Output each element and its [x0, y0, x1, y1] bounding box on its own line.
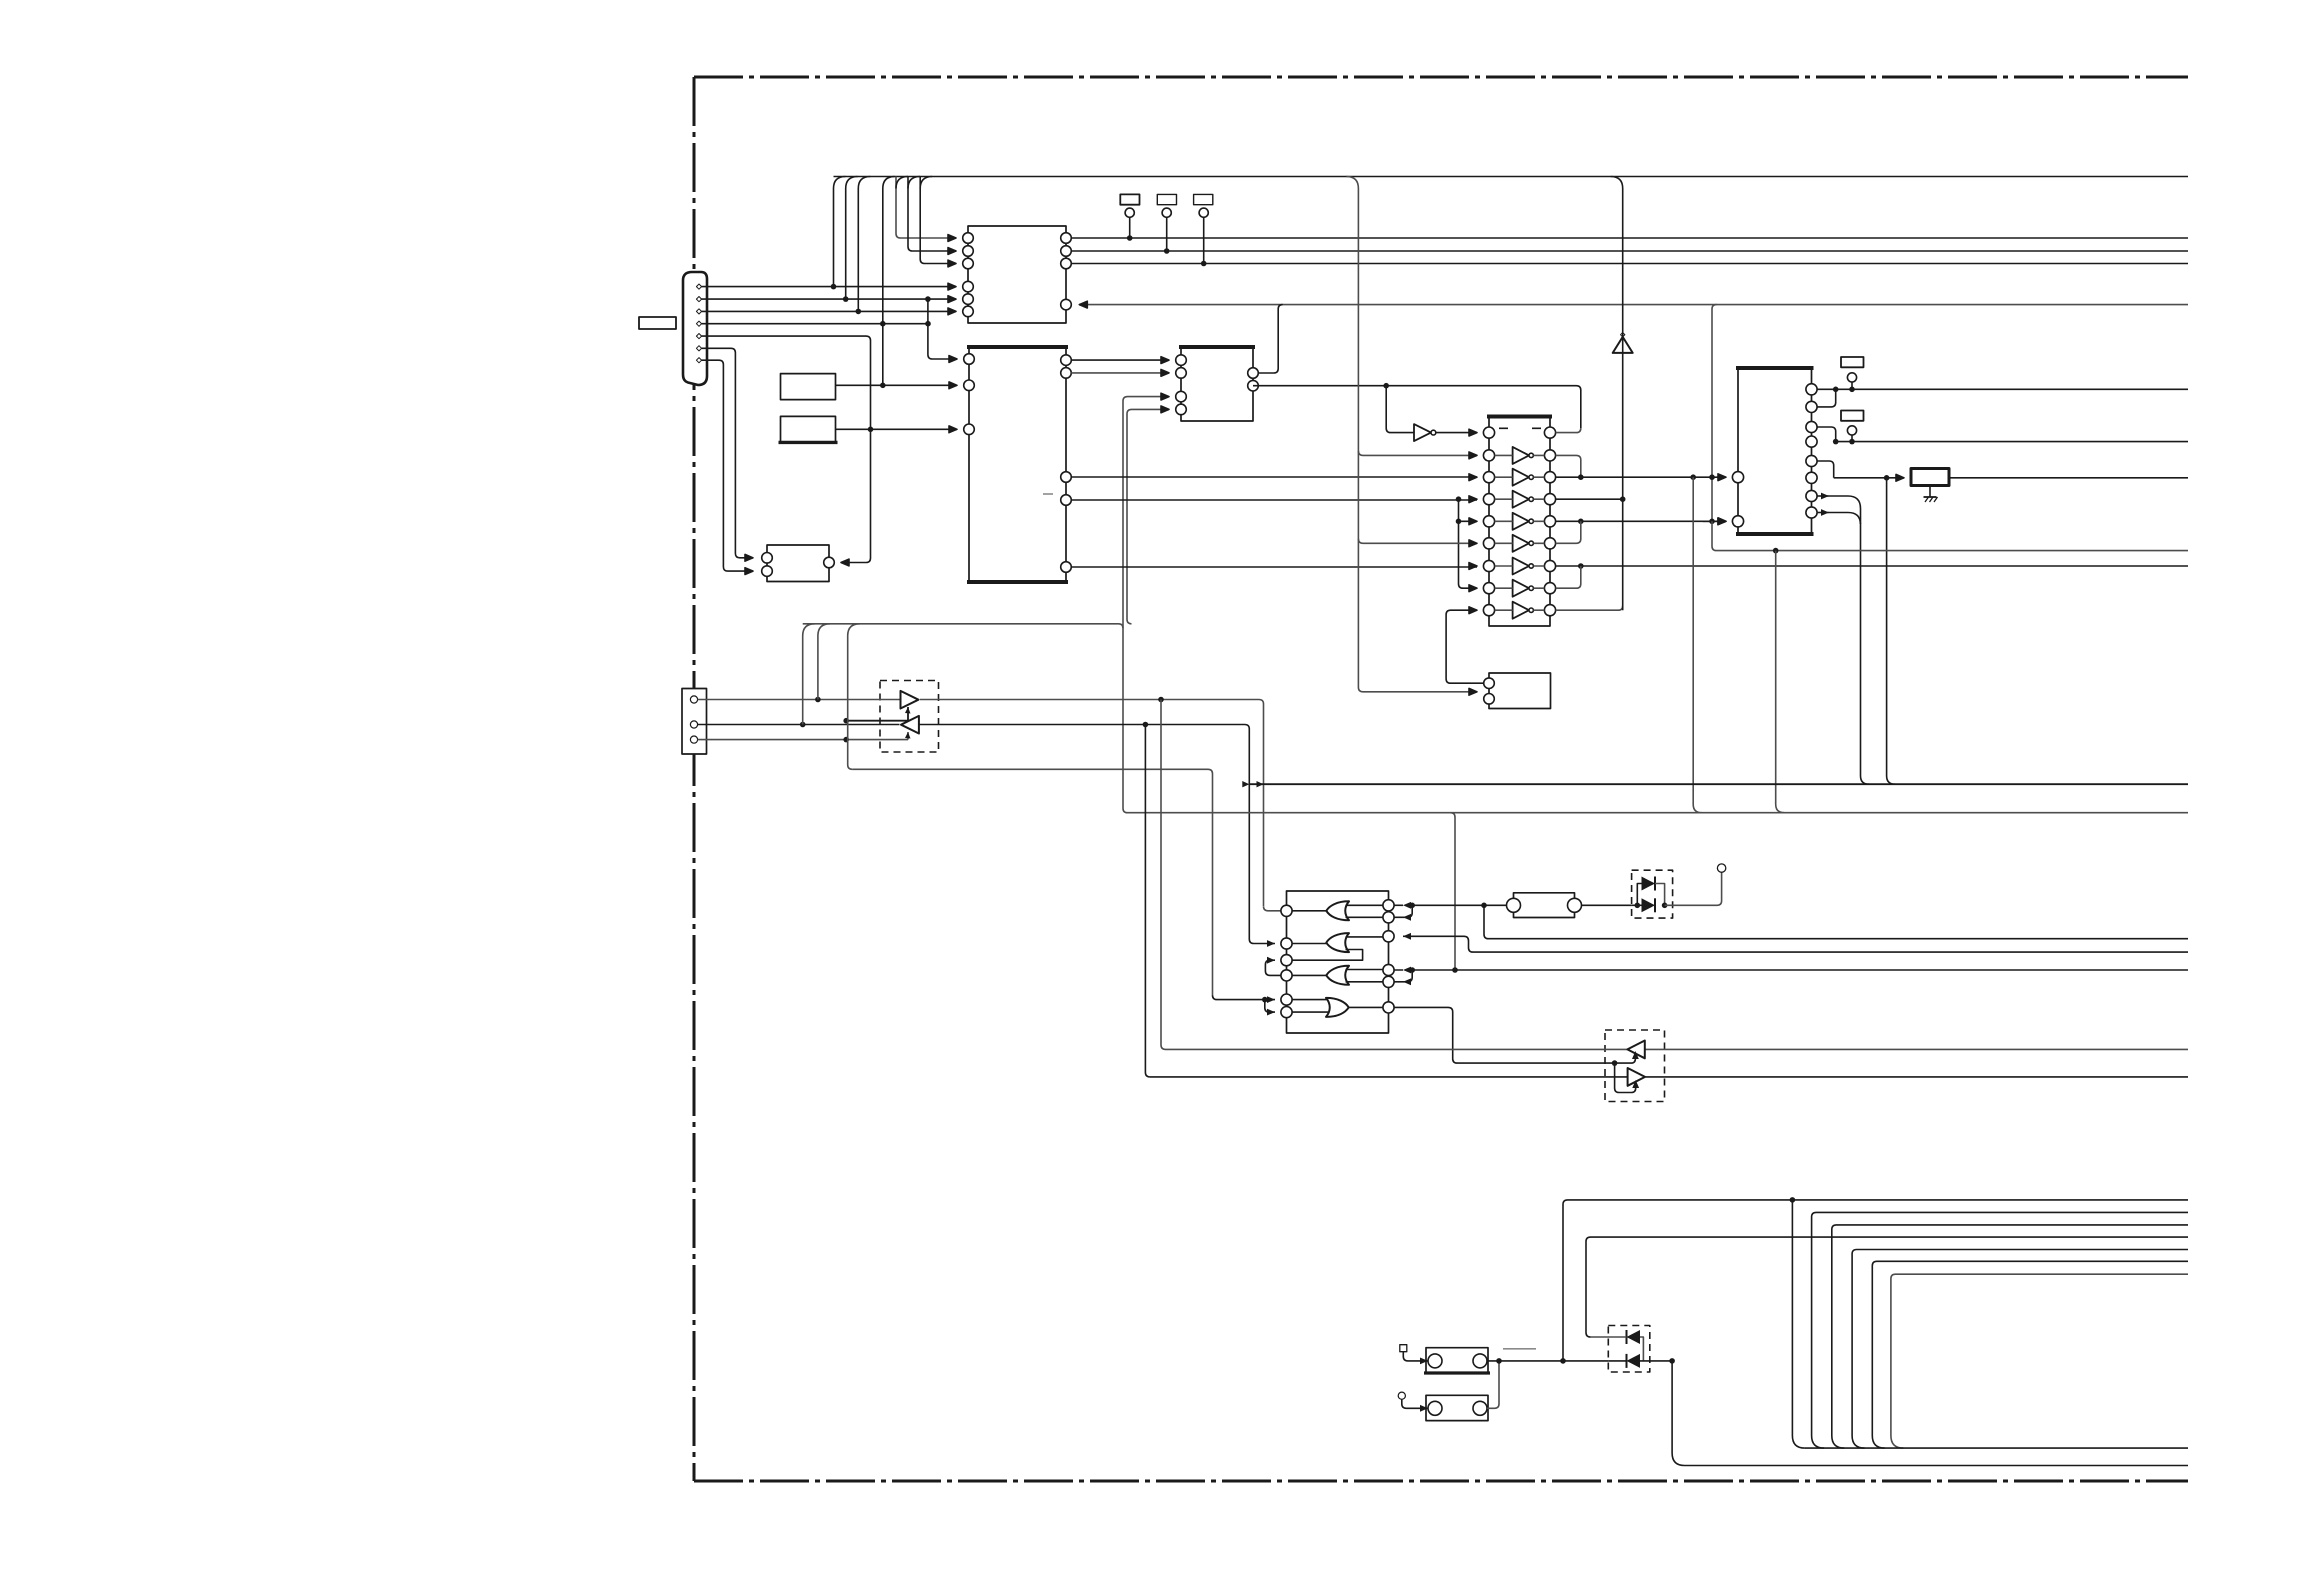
- wire U6 out4 to right edge: [1833, 439, 2188, 445]
- connector J1 pin 1: [696, 284, 701, 289]
- wire U3 out2 to riser V1580: [1253, 383, 1581, 428]
- wire U2 out2 to U3 in2: [1071, 370, 1169, 377]
- connector J2 body: [682, 689, 707, 755]
- wire bus M1 middle horizontal: [803, 624, 1123, 629]
- wire FB1 tap down to U6 region: [1712, 305, 1717, 522]
- wire bus drop to U1 pin A3: [920, 177, 956, 267]
- wire U2 out3 to U4 row3 input: [1071, 474, 1477, 481]
- IC U4 right pins: [1544, 427, 1555, 616]
- wire net H Y1077 through buffer UB-B: [1150, 1076, 2188, 1078]
- IC U2 right pins: [1061, 355, 1072, 572]
- U4 inverter row4: [1495, 491, 1545, 508]
- wire riser V1458 row4 net to row5 and row8: [1456, 499, 1477, 591]
- wire V1386 down to buffer U9 input: [1386, 386, 1414, 433]
- IC U6 right pins: [1806, 384, 1817, 518]
- wire V1263 net A drop to gate in1: [1264, 906, 1282, 911]
- IC U4 inverter array body: [1487, 417, 1552, 627]
- wire U13 output rise to U12 output net: [1487, 1358, 1502, 1408]
- U4 row1 no-connect dashes: [1499, 427, 1541, 429]
- wire riser V1358 bus to row2 row6 and U5 pin2: [1346, 177, 1477, 696]
- wire Y952 via V1468 to U7 in pin3: [1403, 933, 2188, 952]
- wire U6 out7 curve down join V1860: [1817, 493, 1860, 509]
- wire U8B feedback to net C: [905, 732, 911, 740]
- connector J1 (D-sub) body: [683, 272, 707, 385]
- wire U8A feedback to V847: [843, 707, 910, 724]
- wire U6 out6 to resistor R3: [1834, 474, 1904, 481]
- wire net C gray J2 pin3: [698, 737, 908, 743]
- dashed diode box DB2: [1608, 1326, 1650, 1373]
- wire U6 in2 arrow: [1703, 518, 1726, 525]
- net marker triangle on V1622: [1613, 333, 1633, 353]
- IC U6 body: [1736, 368, 1814, 534]
- wire U6 out8 curve down join V1860: [1817, 509, 1860, 524]
- terminal T5: [1398, 1392, 1428, 1412]
- diode D3: [1635, 877, 1668, 909]
- U4 inverter row6: [1495, 535, 1545, 552]
- IC U6 left pins: [1732, 472, 1743, 527]
- U4 inverter row7: [1495, 558, 1545, 575]
- buffer U9: [1414, 424, 1436, 441]
- wire U4 row2 output drop to row3 output: [1556, 455, 1584, 480]
- connector J1 pin 6: [696, 346, 701, 351]
- wire net RC1 U7 out to RC block U11: [1412, 903, 1506, 909]
- wire U4 row6 output rise to row5: [1556, 521, 1581, 543]
- board outline dash-dot border bottom: [694, 1480, 2188, 1483]
- board outline dash-dot border top: [694, 76, 2188, 79]
- wire riser V847 bus M1 to net D: [848, 624, 860, 770]
- IC U2 left pins: [964, 354, 975, 435]
- RC block U11: [1507, 893, 1582, 918]
- wire U4 row4 output to V1622 junction: [1556, 496, 1626, 502]
- wire U6 out2 jog up: [1817, 389, 1836, 407]
- wire riser V802 bus M1 to net B: [803, 624, 815, 725]
- wire J1 pin3 to U1: [702, 308, 956, 315]
- wire bus net B0 top horizontal: [834, 176, 2189, 178]
- wire U7 gate4 output to buffer box BX2: [1394, 1007, 1639, 1092]
- connector J1 pin 7: [696, 358, 701, 363]
- gate G4 OR right-facing: [1292, 998, 1383, 1017]
- wire net B J2 pin2 through buffer U8B: [698, 722, 1250, 939]
- resistor network R1: [781, 374, 836, 400]
- wire riser V1446 U5 pin1 to row9 input: [1446, 607, 1484, 683]
- wire riser pin1 line to bus: [834, 177, 846, 287]
- label dash near U2 pin: [1043, 493, 1053, 495]
- wire U9 out to U4 row1: [1436, 429, 1477, 436]
- board outline dash-dot border left: [693, 77, 696, 1481]
- diode D2: [1608, 1354, 1672, 1368]
- wire riser V1586 bundle line L4 down to D1: [1586, 1237, 2188, 1337]
- bundle line L1: [1568, 1197, 2189, 1203]
- wire DB1 to terminal T3: [1665, 873, 1722, 906]
- wire riser V1123 from U3 in3 down to gray net: [1123, 393, 1169, 813]
- bundle vertical V1: [1792, 1200, 1805, 1448]
- wire V1145 net B tap down to buffer box BX2: [1145, 725, 1150, 1077]
- wire V1161 net A tap down to buffer box BX2: [1161, 700, 1166, 1050]
- bracket U7 right pins1-2: [1394, 902, 1415, 921]
- IC U10 right pin: [824, 557, 835, 568]
- wire U6 out5 jog down: [1817, 461, 1834, 478]
- wire net E dark Y784: [1242, 781, 2188, 787]
- wire V1887 resistor net down to Y784: [1887, 478, 1896, 784]
- wire R1 to U2 pin2: [836, 382, 958, 389]
- wire J1 pin7 down to U10 pin2: [702, 360, 753, 574]
- wire U4 row1 output riser to U3 net: [1556, 428, 1581, 433]
- wire J1 pin2 to U1: [702, 296, 956, 303]
- U4 inverter row3: [1495, 469, 1545, 486]
- buffer U8B: [901, 716, 919, 734]
- gate array U7 body: [1287, 891, 1389, 1033]
- wire riser pin3 line to bus: [858, 177, 870, 312]
- wire U4 row8 output rise to row7: [1556, 566, 1581, 588]
- IC U4 left pins: [1483, 427, 1494, 616]
- bracket U7 right pins4-5 and net Y970: [1394, 967, 2188, 986]
- wire U4 row7 output to right edge: [1556, 563, 2188, 569]
- relay coil U12: [1424, 1348, 1490, 1373]
- label box left of connector: [639, 317, 676, 329]
- wire gray jog pin2 net down to Y550 line: [1712, 521, 2188, 553]
- U4 inverter row8: [1495, 580, 1545, 597]
- terminal T3: [1717, 864, 1725, 872]
- IC U10 body: [767, 545, 829, 582]
- wire riser J1pin2 junction down to U2 pin1: [928, 299, 957, 362]
- wire U4 row5 output to U6 in2: [1556, 518, 1726, 525]
- IC U3 left pins: [1176, 355, 1187, 415]
- wire U2 out5 to U4 row7 input: [1071, 563, 1477, 570]
- dashed buffer box BX2: [1605, 1030, 1665, 1102]
- bundle line L6 and vertical V5: [1872, 1261, 2188, 1448]
- IC U5 body: [1489, 673, 1551, 709]
- wire V1775 Y550 net down to gray Y812: [1776, 551, 1785, 813]
- IC U1 body: [968, 226, 1066, 323]
- gate G2 OR left-facing: [1292, 933, 1383, 960]
- bracket U7 outputs pins3-4 tie: [1265, 957, 1281, 976]
- wire U1 out3 to right edge: [1071, 263, 2188, 265]
- IC U5 left pins: [1484, 678, 1495, 704]
- IC U1 right pins: [1061, 233, 1072, 310]
- wire U2 out4 to U4 row4 input: [1071, 496, 1477, 503]
- arrow into gate pin2riser: [1267, 940, 1275, 947]
- wire bus drop to U1 pin A2: [908, 177, 956, 255]
- wire net D into U7 pins5-6: [1213, 995, 1276, 1015]
- resistor network R2: [779, 416, 838, 442]
- connector J1 pin 3: [696, 309, 701, 314]
- wire U2 out1 to U3 in1: [1071, 357, 1169, 364]
- U4 inverter row5: [1495, 513, 1545, 530]
- wire V1249 net B drop to gate in2: [1249, 939, 1275, 944]
- wire riser V1622 bus to row4 output: [1611, 177, 1623, 611]
- wire net K U12 output to diode box DB2: [1487, 1358, 1608, 1364]
- wire net G Y1049 through buffer UB-A: [1166, 1048, 2189, 1050]
- wire V1860 down to net Y784: [1861, 509, 1870, 785]
- wire net K2 D2 drop to bottom line: [1669, 1358, 2188, 1465]
- connector J2 pin 2: [690, 721, 697, 728]
- U4 inverter row2: [1495, 447, 1545, 464]
- resistor R3: [1911, 469, 1949, 486]
- test pad TP3: [1194, 194, 1213, 266]
- gate G1 OR left-facing: [1292, 901, 1383, 920]
- test pad TP2: [1157, 194, 1176, 253]
- wire riser V817 bus M1 to net A: [818, 624, 830, 700]
- wire bus drop to U1 pin A1: [896, 177, 956, 242]
- wire U4 row3 output to U6 in1: [1556, 474, 1726, 481]
- gate array U7 right pins: [1383, 900, 1394, 1013]
- bundle line L7 and vertical V6: [1891, 1274, 2188, 1448]
- wire riser pin2 line to bus: [846, 177, 858, 300]
- terminal pad T2: [1841, 411, 1864, 445]
- connector J1 pin 5: [696, 334, 701, 339]
- bundle line L2 and vertical V2: [1812, 1212, 2188, 1448]
- bundle line L3 and vertical V3: [1832, 1225, 2188, 1448]
- wire riser V1563 net K up to bundle line L1: [1563, 1200, 1568, 1361]
- dashed diode box DB1: [1632, 870, 1673, 918]
- terminal square T4: [1400, 1345, 1428, 1365]
- dashed isolation box BX1: [880, 681, 939, 753]
- diode D1: [1591, 1330, 1644, 1361]
- wire J1 pin1 to U1: [702, 283, 956, 290]
- relay coil U13: [1426, 1395, 1488, 1420]
- connector J2 pin 3: [690, 736, 697, 743]
- connector J1 pin 4: [696, 321, 701, 326]
- test pad TP1: [1120, 194, 1139, 240]
- wire net A gray J2 pin1 through buffer U8A: [698, 697, 1264, 906]
- connector J2 pin 1: [690, 696, 697, 703]
- wire riser V1127 from U3 in4 down to bus M1: [1127, 406, 1169, 624]
- wire J1 pin5 down to U10: [702, 336, 874, 566]
- IC U10 left pins: [762, 553, 773, 577]
- IC U1 left pins: [963, 233, 974, 317]
- ground symbol under R3: [1924, 486, 1938, 503]
- wire U11 to diode box DB1: [1582, 904, 1632, 906]
- IC U3 body: [1179, 347, 1255, 421]
- wire U4 row9 output rise to V1622: [1556, 606, 1623, 611]
- wire V1693 row3 net down to gray Y812: [1693, 477, 1702, 813]
- wire U6 out3 jog down: [1817, 427, 1836, 442]
- wire net F gray Y812: [1128, 813, 2189, 970]
- IC U3 right pins: [1248, 368, 1259, 391]
- buffer UB-B right-facing: [1628, 1068, 1645, 1086]
- buffer UB-A left-facing: [1627, 1041, 1644, 1059]
- wire R3 to right edge: [1949, 477, 2188, 479]
- wire R2 to U2 pin3: [836, 426, 958, 433]
- gate array U7 left pins: [1281, 905, 1292, 1018]
- bundle line L5 and vertical V4: [1852, 1250, 2188, 1449]
- wire U1 out2 to right edge: [1071, 250, 2188, 252]
- connector J1 pin 2: [696, 297, 701, 302]
- wire U6 out1 to right edge: [1817, 387, 2188, 393]
- buffer U8A: [901, 691, 919, 709]
- wire U3 out1 riser to FB1: [1253, 305, 1283, 373]
- wire net D gray to V1212: [852, 769, 1212, 995]
- junction FB1 tap on row5 line: [1709, 519, 1715, 525]
- label dash above net K: [1503, 1348, 1536, 1350]
- wire U1 out1 to right edge: [1071, 237, 2188, 239]
- diode D4: [1632, 898, 1655, 912]
- gate G3 OR left-facing: [1292, 966, 1383, 985]
- wire J1 pin6 down to U10 pin1: [702, 348, 753, 561]
- U4 inverter row9: [1495, 602, 1545, 619]
- wire J1 pin4: [702, 321, 931, 327]
- wire net FB1 into U1 right pin4 from right edge: [1079, 301, 2188, 308]
- junction FB1 tap on row3 line: [1709, 474, 1715, 480]
- wire V1483 drop to Y938: [1484, 905, 2188, 938]
- terminal pad T1: [1841, 357, 1864, 392]
- bundle merge bottom line: [1805, 1447, 2188, 1449]
- wire riser pin4 line to bus and rect R2 line: [883, 177, 895, 386]
- IC U2 body: [967, 347, 1068, 582]
